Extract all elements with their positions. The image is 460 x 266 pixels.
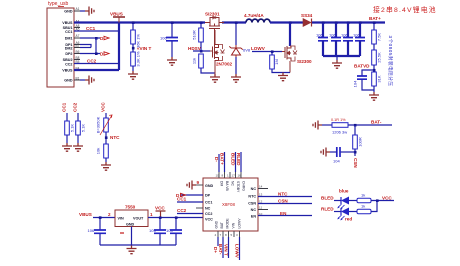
wire Q3 drain vertical bbox=[289, 23, 291, 47]
svg-text:NC: NC bbox=[231, 181, 235, 186]
wire DM1-DP2 vertical bbox=[95, 38, 97, 54]
wire LED to R11 bbox=[349, 200, 357, 202]
svg-text:B7: B7 bbox=[76, 44, 80, 48]
svg-text:CC1: CC1 bbox=[177, 197, 187, 202]
svg-text:«VIN T: «VIN T bbox=[137, 46, 151, 51]
wire LOWV (U1 bottom) bbox=[239, 237, 241, 260]
resistor R8 31K bbox=[372, 72, 382, 92]
svg-text:BATVD: BATVD bbox=[354, 64, 370, 69]
wire DM2 bbox=[80, 47, 91, 49]
wire NTC (U1) bbox=[258, 196, 312, 198]
resistor R4 11k bbox=[192, 54, 216, 73]
svg-text:GND: GND bbox=[64, 79, 73, 83]
svg-text:DM2: DM2 bbox=[65, 46, 73, 50]
svg-text:106: 106 bbox=[316, 33, 323, 38]
svg-text:GND: GND bbox=[64, 10, 73, 14]
wire VCC rail bbox=[148, 217, 203, 219]
capacitor C5 106 bbox=[353, 23, 365, 57]
svg-text:LOWV: LOWV bbox=[238, 218, 242, 229]
wire L1 to D1 bbox=[270, 21, 303, 23]
svg-text:VIN T: VIN T bbox=[223, 244, 228, 256]
svg-text:106: 106 bbox=[329, 33, 336, 38]
svg-text:VCC: VCC bbox=[382, 196, 392, 201]
wire R12 to VCC junction bbox=[371, 201, 377, 212]
svg-text:DP2: DP2 bbox=[65, 52, 72, 56]
wire CC1 to U1 bbox=[177, 201, 203, 203]
svg-text:5.1K: 5.1K bbox=[70, 124, 75, 133]
svg-text:17: 17 bbox=[232, 174, 236, 178]
wire D1 to BAT+ bbox=[312, 21, 385, 23]
U1 right pin names bbox=[248, 187, 256, 219]
svg-text:10: 10 bbox=[216, 174, 220, 178]
svg-text:NTC: NTC bbox=[278, 192, 288, 197]
U1 top pin names (vertical) bbox=[220, 181, 246, 193]
svg-text:VBUS: VBUS bbox=[79, 212, 92, 217]
wire CC2 to U1 bbox=[177, 213, 203, 215]
U1 bottom pin numbers bbox=[215, 233, 239, 237]
port flag D+ bbox=[100, 52, 109, 57]
junction VCC LEDs bbox=[376, 199, 379, 202]
svg-text:NC: NC bbox=[251, 208, 257, 212]
svg-text:DP: DP bbox=[205, 194, 211, 198]
svg-text:8: 8 bbox=[225, 233, 227, 237]
ground (R15) bbox=[101, 162, 111, 170]
svg-text:1: 1 bbox=[150, 212, 153, 217]
svg-text:GND: GND bbox=[205, 184, 214, 188]
svg-text:9: 9 bbox=[197, 180, 200, 185]
junction Q3 drain bbox=[289, 21, 292, 24]
svg-text:106: 106 bbox=[160, 36, 167, 41]
svg-text:BAT-: BAT- bbox=[218, 244, 223, 255]
ground (BAT- shunt left) bbox=[313, 121, 322, 130]
resistor R13 5.1K bbox=[65, 113, 75, 143]
svg-text:D: D bbox=[100, 36, 104, 41]
wire VBUS vertical branch bbox=[74, 23, 119, 71]
U1 top stubs bbox=[219, 172, 241, 178]
ground (U1 GND, left-pointing) bbox=[187, 181, 196, 190]
svg-text:104: 104 bbox=[166, 228, 173, 233]
svg-text:CC2: CC2 bbox=[87, 59, 97, 64]
svg-text:A1: A1 bbox=[76, 7, 80, 11]
svg-text:CC1: CC1 bbox=[65, 30, 72, 34]
resistor R14 5.1K bbox=[76, 113, 86, 143]
svg-text:D+: D+ bbox=[213, 247, 218, 253]
junction C8 bbox=[159, 216, 162, 219]
svg-text:HDSV: HDSV bbox=[188, 46, 202, 51]
svg-text:blue: blue bbox=[339, 189, 349, 194]
junction BAT+ divider bbox=[373, 21, 376, 24]
svg-text:VCC: VCC bbox=[155, 206, 165, 211]
svg-text:CSN: CSN bbox=[278, 199, 288, 204]
wire HDSV to Q2 gate bbox=[193, 50, 210, 52]
junction C9 bbox=[175, 216, 178, 219]
resistor R2 3.3K 1% bbox=[131, 51, 141, 71]
wire RLED to LED bbox=[334, 211, 341, 213]
U1 top pin numbers bbox=[216, 174, 242, 178]
port flag D- bbox=[100, 36, 109, 41]
junction R1 top bbox=[132, 21, 135, 24]
junction C1 top bbox=[171, 21, 174, 24]
svg-text:104: 104 bbox=[353, 80, 358, 87]
svg-text:10: 10 bbox=[259, 212, 263, 216]
svg-text:VBUS: VBUS bbox=[62, 21, 73, 25]
wire shunt to BAT- bbox=[348, 124, 392, 126]
svg-text:MODE: MODE bbox=[226, 218, 230, 229]
svg-text:3.3K 1%: 3.3K 1% bbox=[136, 51, 141, 67]
svg-text:EN: EN bbox=[251, 214, 256, 218]
capacitor C3 106 bbox=[329, 23, 341, 57]
svg-text:RLED: RLED bbox=[321, 207, 334, 212]
wire CSN (U1) bbox=[258, 203, 312, 205]
ground (J1 bottom, right-pointing) bbox=[85, 76, 94, 85]
svg-text:CHRG: CHRG bbox=[242, 181, 246, 191]
svg-text:DM1: DM1 bbox=[65, 37, 73, 41]
svg-text:1k: 1k bbox=[361, 193, 365, 198]
resistor R11 1k bbox=[357, 193, 371, 203]
port flag D+ (U1) bbox=[176, 193, 186, 198]
svg-text:5: 5 bbox=[231, 233, 233, 237]
charger IC U1 X8F08 body bbox=[203, 178, 258, 231]
wire VBUS to U2 bbox=[93, 217, 115, 219]
svg-text:LOWV: LOWV bbox=[251, 46, 266, 51]
zener D2 6V8 bbox=[229, 23, 251, 75]
resistor R6 7.5K bbox=[372, 23, 382, 51]
regulator U2 7550 bbox=[115, 205, 148, 227]
svg-text:0.1R 1%: 0.1R 1% bbox=[331, 118, 346, 122]
resistor R7 25.5K bbox=[372, 50, 382, 72]
svg-text:CC2: CC2 bbox=[65, 62, 72, 66]
svg-text:B8: B8 bbox=[76, 56, 80, 60]
svg-text:VBUS: VBUS bbox=[110, 12, 123, 17]
svg-text:BLED: BLED bbox=[321, 196, 334, 201]
junctions cap bank bbox=[322, 21, 325, 24]
resistor R1 36K 1% bbox=[131, 23, 141, 49]
junction DM1 bbox=[95, 37, 98, 40]
U1 NC stub left bbox=[196, 207, 203, 209]
svg-text:1: 1 bbox=[227, 174, 229, 178]
wire R11 to VCC bbox=[371, 200, 394, 202]
junction C7 bbox=[99, 216, 102, 219]
resistor R9 0.1R 1% shunt bbox=[331, 118, 348, 135]
U1 bottom pin names (vertical) bbox=[215, 218, 242, 229]
wire shunt left bbox=[322, 124, 332, 126]
svg-text:5.1K: 5.1K bbox=[81, 124, 86, 133]
junction C6 bbox=[354, 151, 357, 154]
capacitor C6 104 bbox=[330, 147, 355, 164]
wire D+ (U1 bottom) bbox=[217, 237, 219, 246]
ground (C1) bbox=[167, 57, 177, 65]
wire U2 ground rail bbox=[100, 227, 176, 246]
capacitor C7 106 bbox=[88, 218, 107, 246]
wire BLED to LED bbox=[334, 200, 341, 202]
svg-text:B1: B1 bbox=[76, 76, 80, 80]
svg-text:A7: A7 bbox=[76, 34, 80, 38]
wire BLED (U1 top) bbox=[235, 152, 237, 172]
wire J1 GND bottom bbox=[80, 79, 85, 81]
wire D- (U1 top) bbox=[218, 154, 220, 172]
svg-text:CC2: CC2 bbox=[205, 212, 212, 216]
U1 right pin numbers bbox=[259, 185, 263, 217]
wire VBUS main bus bbox=[74, 21, 205, 23]
svg-text:BAT-: BAT- bbox=[371, 120, 382, 125]
svg-text:1k: 1k bbox=[361, 204, 365, 209]
svg-text:14: 14 bbox=[259, 185, 263, 189]
svg-text:NC: NC bbox=[251, 187, 257, 191]
node VIN_T bbox=[132, 44, 134, 52]
svg-text:12: 12 bbox=[259, 200, 263, 204]
svg-text:BLED: BLED bbox=[230, 153, 235, 166]
ground (Q2 source) bbox=[210, 74, 220, 82]
capacitor C10 104 bbox=[353, 70, 375, 90]
svg-text:CC1: CC1 bbox=[62, 102, 67, 112]
wire DP2 bbox=[80, 53, 100, 55]
LED D4 red bbox=[338, 208, 352, 222]
svg-text:BAT+: BAT+ bbox=[369, 16, 381, 21]
ground (J1 top, right-pointing) bbox=[85, 7, 94, 16]
svg-text:CC1: CC1 bbox=[205, 201, 212, 205]
svg-text:2: 2 bbox=[108, 212, 111, 217]
ground (divider) bbox=[369, 92, 379, 100]
wire DM1 bbox=[80, 37, 100, 39]
ground (R13) bbox=[62, 143, 72, 151]
svg-text:11: 11 bbox=[259, 206, 262, 210]
svg-text:red: red bbox=[345, 217, 352, 222]
svg-text:104: 104 bbox=[333, 159, 340, 164]
svg-text:D-: D- bbox=[214, 157, 219, 162]
ground (Q3 source) bbox=[278, 73, 288, 81]
U1 left pin names bbox=[205, 184, 214, 222]
svg-text:RLED: RLED bbox=[236, 153, 241, 166]
capacitor C2 106 bbox=[316, 23, 328, 57]
LED D3 blue bbox=[338, 189, 349, 209]
power flag VBUS bbox=[110, 12, 125, 23]
svg-text:8: 8 bbox=[222, 174, 224, 178]
node NTC bbox=[105, 136, 108, 139]
svg-text:SS34: SS34 bbox=[301, 13, 313, 18]
svg-text:NTC: NTC bbox=[110, 135, 120, 140]
svg-text:1206 3w: 1206 3w bbox=[332, 130, 347, 135]
wire DP to flag bbox=[180, 194, 203, 196]
wire RLED (U1 top) bbox=[240, 152, 242, 172]
junction zener top bbox=[235, 21, 238, 24]
svg-text:3个0805封装电阻分压: 3个0805封装电阻分压 bbox=[387, 36, 394, 87]
wire LOWV to Q3 gate bbox=[252, 51, 282, 53]
U1 bottom stubs bbox=[218, 231, 240, 237]
wire VBUS bus after Q1 bbox=[222, 21, 246, 23]
svg-text:接2串8.4V锂电池: 接2串8.4V锂电池 bbox=[373, 5, 437, 14]
svg-text:BAT+: BAT+ bbox=[219, 153, 224, 165]
svg-text:25.5K: 25.5K bbox=[377, 52, 382, 63]
svg-text:VIN: VIN bbox=[232, 222, 236, 228]
junction CSN sense bbox=[354, 124, 357, 127]
svg-text:EN: EN bbox=[280, 211, 287, 216]
J1 pin names bbox=[62, 10, 73, 83]
svg-text:SI2300: SI2300 bbox=[297, 59, 312, 64]
svg-text:GND: GND bbox=[215, 220, 219, 228]
wire BAT+ (U1 top) bbox=[224, 152, 226, 172]
svg-text:B=3950K: B=3950K bbox=[96, 116, 101, 133]
ground (R14) bbox=[73, 143, 83, 151]
svg-text:VOUT: VOUT bbox=[133, 217, 144, 221]
svg-text:DM: DM bbox=[220, 181, 224, 186]
ground (U2 rail) bbox=[127, 246, 137, 254]
inductor L1 4.7uH/4A bbox=[244, 13, 270, 23]
svg-text:VCC: VCC bbox=[101, 102, 106, 112]
svg-text:LOWV: LOWV bbox=[234, 244, 239, 259]
svg-text:105: 105 bbox=[149, 228, 156, 233]
svg-text:31K: 31K bbox=[377, 75, 382, 82]
svg-text:106: 106 bbox=[341, 33, 348, 38]
svg-text:CC1: CC1 bbox=[86, 26, 96, 31]
wire EN (U1) bbox=[258, 215, 312, 217]
wire BAT- (U1 bottom) bbox=[222, 237, 224, 258]
U1 right stubs bbox=[258, 189, 268, 210]
resistor R10 100R bbox=[353, 125, 363, 156]
svg-text:4.7uH/4A: 4.7uH/4A bbox=[244, 13, 264, 18]
svg-text:B6: B6 bbox=[76, 50, 80, 54]
ground (C6, left-pointing) bbox=[321, 148, 330, 157]
svg-text:1M: 1M bbox=[274, 59, 279, 65]
wire J1 GND top bbox=[80, 10, 85, 12]
svg-text:VIN: VIN bbox=[118, 217, 124, 221]
transistor Q1 SI2301 (PMOS in VBUS rail) bbox=[205, 12, 224, 47]
connector J1 type_usb body bbox=[47, 1, 74, 87]
resistor R12 1k bbox=[357, 204, 371, 214]
ground (cap bank) bbox=[336, 56, 338, 60]
thermistor RT1 B=3950K bbox=[96, 113, 113, 144]
capacitor C9 104 bbox=[166, 218, 182, 246]
svg-text:X8F08: X8F08 bbox=[222, 202, 235, 207]
wire CC1 from J1 bbox=[74, 30, 118, 32]
svg-text:CSN: CSN bbox=[353, 158, 358, 168]
svg-text:VCC: VCC bbox=[205, 217, 213, 221]
svg-text:106: 106 bbox=[353, 33, 360, 38]
svg-text:STDBY: STDBY bbox=[236, 181, 240, 193]
svg-text:CSN: CSN bbox=[248, 202, 256, 206]
svg-text:7.5K: 7.5K bbox=[377, 33, 382, 42]
svg-text:7550: 7550 bbox=[125, 205, 136, 210]
svg-text:510R: 510R bbox=[192, 30, 197, 40]
svg-text:BAT: BAT bbox=[220, 222, 224, 228]
svg-text:D: D bbox=[100, 52, 104, 57]
transistor Q2 2N7002 bbox=[210, 30, 233, 74]
capacitor C1 106 bbox=[160, 23, 178, 58]
junction R3 top bbox=[200, 21, 203, 24]
svg-text:100R: 100R bbox=[358, 137, 363, 147]
polarity mark bbox=[120, 232, 124, 234]
capacitor C8 105 bbox=[149, 218, 166, 246]
wire DP1 step bbox=[80, 45, 91, 48]
svg-text:13: 13 bbox=[259, 193, 263, 197]
svg-text:VBUS: VBUS bbox=[62, 69, 73, 73]
svg-text:10k: 10k bbox=[96, 148, 101, 154]
resistor R15 10k bbox=[96, 144, 109, 162]
svg-text:3: 3 bbox=[236, 233, 238, 237]
diode D1 SS34 bbox=[301, 13, 313, 27]
svg-text:6V8: 6V8 bbox=[243, 48, 251, 53]
U1 pin 9 GND stub bbox=[196, 184, 203, 186]
svg-text:NC: NC bbox=[205, 207, 211, 211]
svg-text:16: 16 bbox=[238, 174, 242, 178]
ground (R2) bbox=[128, 71, 138, 79]
junction DP2 bbox=[95, 52, 98, 55]
svg-text:GND: GND bbox=[126, 223, 135, 227]
resistor R5 1M bbox=[270, 52, 290, 73]
wire LED to R12 bbox=[349, 211, 357, 213]
svg-text:BA VB: BA VB bbox=[225, 181, 229, 192]
svg-text:4: 4 bbox=[215, 233, 217, 237]
svg-text:2N7002: 2N7002 bbox=[216, 62, 233, 67]
svg-text:CC2: CC2 bbox=[73, 102, 78, 112]
svg-text:106: 106 bbox=[88, 228, 95, 233]
capacitor C4 106 bbox=[341, 23, 353, 57]
J1 pin stubs bbox=[74, 11, 80, 80]
resistor R3 510R bbox=[192, 23, 204, 52]
svg-text:NTC: NTC bbox=[248, 195, 256, 199]
svg-text:11k: 11k bbox=[192, 58, 197, 64]
wire VIN_T (U1 bottom) bbox=[228, 237, 230, 258]
wire cap bank bottom bus bbox=[323, 41, 360, 56]
wire CC2 from J1 bbox=[74, 63, 118, 65]
J1 pin numbers bbox=[76, 7, 80, 80]
ground (zener) bbox=[231, 74, 241, 82]
transistor Q3 SI2300 bbox=[282, 46, 312, 73]
svg-text:7: 7 bbox=[220, 233, 222, 237]
svg-text:CC2: CC2 bbox=[177, 208, 187, 213]
